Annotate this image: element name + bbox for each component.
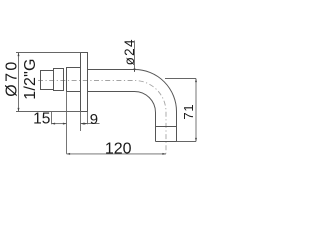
- svg-text:120: 120: [105, 140, 132, 157]
- svg-text:ø24: ø24: [122, 38, 137, 65]
- svg-text:Ø70: Ø70: [4, 59, 21, 96]
- svg-text:1/2"G: 1/2"G: [22, 58, 39, 99]
- svg-text:9: 9: [90, 111, 98, 128]
- svg-text:71: 71: [181, 104, 196, 120]
- svg-text:15: 15: [33, 111, 50, 128]
